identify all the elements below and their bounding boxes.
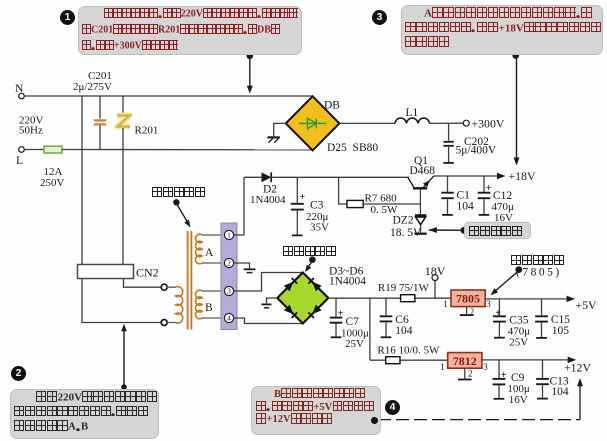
leader from box4 bbox=[371, 417, 378, 424]
pin 2 bbox=[224, 258, 233, 267]
svg-text:1: 1 bbox=[227, 231, 231, 240]
capacitor C13 bbox=[542, 360, 544, 378]
callout box 4 bbox=[251, 386, 381, 435]
DB internal diode symbol bbox=[299, 118, 327, 128]
svg-text:L1: L1 bbox=[406, 107, 419, 119]
node N terminal bbox=[19, 93, 25, 99]
svg-text:3: 3 bbox=[486, 299, 491, 309]
label step-down transformer bbox=[152, 187, 205, 199]
regulator U2 7812 bbox=[448, 353, 482, 369]
svg-text:18. 5V: 18. 5V bbox=[390, 227, 422, 239]
svg-text:2μ/275V: 2μ/275V bbox=[73, 81, 112, 93]
svg-text:25V: 25V bbox=[345, 338, 364, 350]
wire vertical L to CN2 bbox=[122, 150, 124, 265]
svg-text:1N4004: 1N4004 bbox=[250, 194, 286, 206]
leader from box3 bbox=[516, 56, 518, 161]
wire pin4 to bridge bottom bbox=[234, 318, 303, 324]
svg-text:35V: 35V bbox=[310, 222, 329, 234]
svg-text:16V: 16V bbox=[494, 212, 513, 224]
svg-text:R16 10/0. 5W: R16 10/0. 5W bbox=[377, 345, 440, 357]
wire DB left to chassis ground bbox=[274, 123, 286, 136]
svg-text:A: A bbox=[205, 247, 214, 259]
svg-text:(7805): (7805) bbox=[516, 267, 562, 279]
resistor R7 bbox=[339, 177, 347, 204]
svg-text:5μ/400V: 5μ/400V bbox=[456, 145, 497, 157]
wire N line bbox=[24, 95, 312, 97]
svg-text:2: 2 bbox=[468, 368, 473, 378]
callout box 1 bbox=[78, 6, 302, 55]
pin 1 bbox=[224, 230, 233, 239]
resistor R16 bbox=[370, 359, 386, 361]
ground bridge left bbox=[262, 303, 272, 305]
wire pin3 to bridge top bbox=[234, 273, 303, 292]
varistor R201 bbox=[122, 96, 124, 114]
bridge rectifier D3-D6 bbox=[277, 273, 328, 324]
svg-text:104: 104 bbox=[395, 325, 413, 337]
label three-terminal regulator bbox=[511, 255, 564, 267]
svg-text:4: 4 bbox=[227, 314, 231, 323]
capacitor C35 bbox=[498, 299, 500, 316]
bridge rectifier DB bbox=[286, 96, 340, 150]
transformer T1 primary winding bbox=[167, 287, 176, 322]
fuse 12A 250V bbox=[44, 146, 62, 153]
transformer secondary winding A bbox=[196, 234, 203, 264]
svg-text:2: 2 bbox=[227, 259, 231, 268]
svg-text:+12V: +12V bbox=[564, 361, 591, 375]
pin 3 bbox=[224, 286, 233, 295]
node L terminal bbox=[19, 147, 25, 153]
svg-text:DB: DB bbox=[324, 100, 340, 112]
svg-text:250V: 250V bbox=[40, 177, 65, 189]
svg-text:50Hz: 50Hz bbox=[19, 125, 43, 137]
svg-text:B: B bbox=[205, 302, 213, 314]
diode D5 bbox=[284, 305, 293, 314]
callout number 4 bbox=[385, 400, 400, 415]
svg-text:D468: D468 bbox=[410, 165, 436, 177]
regulator U1 7805 bbox=[451, 290, 485, 307]
svg-text:C3: C3 bbox=[310, 200, 324, 212]
svg-text:N: N bbox=[15, 83, 24, 95]
callout number 2 bbox=[11, 366, 26, 381]
wire CN2 to primary bottom bbox=[82, 279, 161, 323]
callout number 1 bbox=[60, 10, 75, 25]
callout box 2 bbox=[10, 389, 159, 439]
ground 7812 bbox=[464, 368, 466, 378]
wire D2 to Q1 collector bbox=[271, 176, 409, 178]
wire branch to R16 line bbox=[369, 298, 371, 360]
transformer core bbox=[187, 231, 189, 330]
leader from box1 bbox=[249, 56, 251, 89]
svg-text:3: 3 bbox=[227, 287, 231, 296]
svg-text:1N4004: 1N4004 bbox=[329, 276, 366, 288]
ground pin2 bbox=[244, 268, 256, 270]
svg-text:L: L bbox=[16, 155, 23, 167]
label zener callout bbox=[429, 227, 437, 233]
capacitor C201 bbox=[99, 96, 101, 119]
connector CN2 bbox=[78, 265, 134, 279]
svg-text:R201: R201 bbox=[135, 125, 159, 137]
svg-text:+18V: +18V bbox=[509, 169, 536, 183]
capacitor C6 bbox=[385, 298, 387, 315]
svg-text:R7 680: R7 680 bbox=[365, 193, 398, 205]
ground 7805 bbox=[466, 307, 468, 315]
wire bridge left to ground bbox=[267, 298, 278, 303]
svg-text:1: 1 bbox=[443, 299, 448, 309]
wire +5V out bbox=[485, 298, 570, 300]
svg-text:104: 104 bbox=[551, 386, 569, 398]
capacitor C9 bbox=[498, 360, 500, 378]
svg-text:105: 105 bbox=[552, 325, 570, 337]
resistor R19 bbox=[401, 295, 415, 302]
wire bridge to 7805 bbox=[328, 297, 451, 299]
transformer secondary winding B bbox=[195, 290, 202, 319]
wire +12V out bbox=[482, 359, 571, 361]
diode D2 bbox=[244, 176, 262, 178]
node primary bottom terminal bbox=[161, 320, 167, 326]
capacitor C1 bbox=[447, 176, 449, 192]
callout box 3 bbox=[401, 5, 603, 55]
capacitor C12 bbox=[483, 176, 485, 192]
diode D3 bbox=[284, 282, 293, 291]
label bridge callout dot-arrow bbox=[309, 256, 316, 263]
wire vertical N to CN2 bbox=[81, 96, 83, 265]
svg-text:+5V: +5V bbox=[576, 298, 598, 312]
label zener diode tag bbox=[469, 226, 522, 238]
wire CN2 to primary top bbox=[124, 279, 162, 288]
svg-text:DZ2: DZ2 bbox=[393, 215, 414, 227]
node primary top terminal bbox=[161, 284, 167, 290]
svg-text:3: 3 bbox=[483, 362, 488, 372]
wire L to fuse bbox=[24, 149, 44, 151]
svg-text:18V: 18V bbox=[425, 264, 446, 278]
chassis ground DB bbox=[268, 136, 280, 138]
node 18V tap bbox=[434, 281, 436, 299]
wire pin1 to D2 line bbox=[234, 177, 244, 235]
svg-text:104: 104 bbox=[457, 200, 475, 212]
wire L line after fuse bbox=[62, 149, 313, 151]
pin 4 bbox=[224, 313, 233, 322]
svg-text:25V: 25V bbox=[509, 336, 528, 348]
leader dot box 4 bbox=[371, 417, 378, 424]
wire Q1 base bbox=[419, 189, 421, 215]
wire DB to L1 bbox=[339, 122, 395, 124]
label transformer callout bbox=[173, 199, 179, 205]
svg-text:1: 1 bbox=[440, 362, 445, 372]
svg-text:CN2: CN2 bbox=[136, 266, 159, 280]
svg-text:D25 SB80: D25 SB80 bbox=[327, 142, 378, 154]
capacitor C15 bbox=[541, 299, 543, 316]
capacitor C3 bbox=[296, 177, 298, 203]
leader from box2 bbox=[123, 330, 125, 390]
label bridge rectifier stack bbox=[283, 246, 336, 258]
svg-text:16V: 16V bbox=[509, 394, 528, 406]
diode D6 bbox=[312, 305, 321, 314]
svg-text:+: + bbox=[495, 308, 501, 319]
svg-text:R19 75/1W: R19 75/1W bbox=[378, 282, 430, 294]
callout number 3 bbox=[372, 10, 387, 25]
svg-text:+300V: +300V bbox=[472, 117, 505, 131]
inductor L1 bbox=[395, 118, 430, 123]
svg-text:7805: 7805 bbox=[456, 292, 480, 306]
svg-text:7812: 7812 bbox=[453, 354, 477, 368]
connector strip J1 bbox=[221, 223, 237, 330]
capacitor C7 bbox=[335, 298, 337, 317]
wire L1 to +300V bbox=[430, 122, 464, 124]
capacitor C202 bbox=[448, 123, 450, 140]
node +300V terminal bbox=[463, 120, 469, 126]
zener diode DZ2 bbox=[415, 214, 426, 216]
diode D4 bbox=[312, 282, 321, 291]
svg-text:+: + bbox=[300, 192, 306, 203]
wire +18V rail bbox=[433, 175, 500, 177]
wire pin2 to ground bbox=[234, 263, 250, 268]
svg-text:C7: C7 bbox=[346, 316, 360, 328]
